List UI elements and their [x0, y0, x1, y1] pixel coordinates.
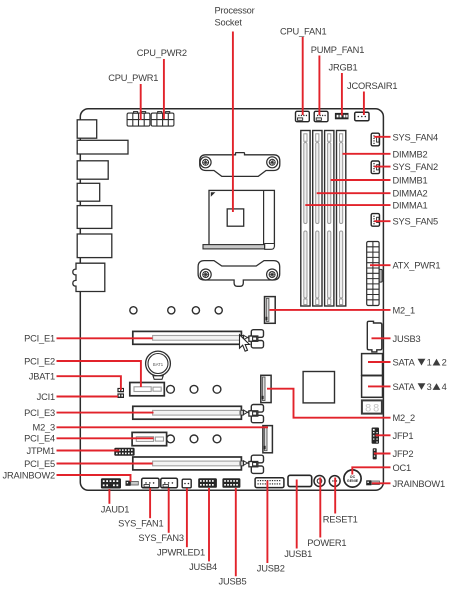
svg-text:DIMMB2: DIMMB2: [393, 149, 428, 159]
wire JUSB2: [266, 481, 268, 564]
rear IO port block 1: [77, 120, 97, 138]
svg-text:PCI_E2: PCI_E2: [24, 356, 55, 366]
svg-text:88: 88: [365, 403, 381, 415]
svg-text:PCI_E3: PCI_E3: [24, 408, 55, 418]
connector SYS_FAN5: [371, 214, 379, 227]
svg-text:DIMMA2: DIMMA2: [393, 189, 428, 199]
svg-text:M2_1: M2_1: [393, 305, 415, 315]
svg-text:JUSB3: JUSB3: [393, 334, 421, 344]
standoff holes row 3: [167, 435, 221, 443]
connector SATA 1/2: [362, 354, 383, 376]
button RESET1: [329, 476, 340, 487]
connector CPU_FAN1: [296, 111, 310, 121]
connector ATX_PWR1 (24-pin): [367, 242, 382, 306]
wire SATA34: [368, 385, 391, 387]
wire DIMMB2: [343, 153, 391, 155]
jumper JBAT1: [117, 388, 124, 392]
connector JRGB1: [335, 113, 348, 119]
wire JUSB1: [296, 480, 298, 549]
svg-text:JPWRLED1: JPWRLED1: [157, 548, 205, 558]
svg-text:ATX_PWR1: ATX_PWR1: [393, 261, 441, 271]
connector JPWRLED1: [182, 479, 191, 488]
M.2 slot M2_1: [265, 297, 276, 324]
wire PCI_E4: [57, 437, 154, 439]
svg-text:CPU_FAN1: CPU_FAN1: [280, 26, 326, 36]
CPU socket bottom bracket: [198, 261, 280, 287]
wire PUMP_FAN1: [318, 56, 320, 116]
leader lines: [57, 32, 391, 577]
svg-text:JBAT1: JBAT1: [29, 372, 55, 382]
svg-text:JAUD1: JAUD1: [101, 504, 129, 514]
svg-text:JRAINBOW2: JRAINBOW2: [3, 470, 55, 480]
svg-text:SYS_FAN4: SYS_FAN4: [393, 132, 438, 142]
DIMM slot DIMMA1: [301, 131, 310, 307]
svg-text:JFP1: JFP1: [393, 431, 414, 441]
jumper JCI1: [117, 393, 124, 398]
wire JCI1: [57, 396, 119, 398]
svg-text:SYS_FAN5: SYS_FAN5: [393, 217, 438, 227]
connector CPU_PWR2 (4x2 grid): [151, 112, 174, 127]
svg-text:JFP2: JFP2: [393, 449, 414, 459]
svg-text:JTPM1: JTPM1: [27, 446, 55, 456]
connector SYS_FAN2: [371, 161, 379, 174]
DIMM slot DIMMB2: [337, 131, 346, 307]
wire JUSB5: [235, 488, 237, 576]
svg-text:JRGB1: JRGB1: [329, 63, 358, 73]
connector JCORSAIR1: [355, 112, 369, 121]
svg-text:RESET1: RESET1: [323, 514, 358, 524]
svg-text:JUSB5: JUSB5: [219, 577, 247, 587]
svg-text:JUSB2: JUSB2: [257, 563, 285, 573]
battery BAT1: [146, 351, 171, 379]
wire SYS_FAN4: [374, 136, 390, 138]
svg-text:JCI1: JCI1: [37, 392, 55, 402]
PCI_E3 slot: [133, 406, 242, 419]
svg-text:M2_3: M2_3: [33, 423, 55, 433]
connector JTPM1: [114, 448, 134, 456]
connector JRAINBOW1: [366, 480, 379, 485]
wire JTPM1: [57, 450, 120, 452]
connector SATA 3/4: [362, 376, 383, 398]
standoff holes row 2: [167, 385, 221, 393]
header JFP1: [372, 428, 379, 444]
wire M2_2: [267, 389, 391, 418]
svg-text:JUSB4: JUSB4: [189, 562, 217, 572]
wire M2_3: [57, 426, 269, 428]
svg-text:Socket: Socket: [215, 18, 243, 28]
CPU socket AM4: [203, 190, 274, 249]
wire JFP1: [376, 434, 391, 436]
wire JFP2: [374, 453, 391, 455]
connector JUSB4: [198, 478, 217, 488]
DIMM slot DIMMB1: [325, 131, 334, 307]
wire ATX_PWR1: [370, 264, 391, 266]
svg-text:JUSB1: JUSB1: [284, 549, 312, 559]
svg-text:SYS_FAN2: SYS_FAN2: [393, 162, 438, 172]
connector JAUD1: [101, 478, 121, 488]
header JFP2: [373, 448, 377, 459]
wire SYS_FAN1: [149, 488, 151, 518]
M.2 slot M2_3: [263, 426, 273, 453]
svg-text:DIMMA1: DIMMA1: [393, 201, 428, 211]
svg-text:CPU_PWR2: CPU_PWR2: [137, 48, 187, 58]
wire CPU_PWR1: [140, 84, 142, 120]
rear IO port block 5: [77, 206, 112, 229]
wire JCORSAIR1: [363, 92, 365, 116]
rear IO port block 2: [77, 140, 128, 154]
svg-text:SATA: SATA: [393, 382, 416, 392]
wire JUSB3: [372, 337, 391, 339]
debug LED display: [362, 400, 382, 415]
wire JRGB1: [341, 73, 343, 116]
wire PCI_E5: [57, 463, 153, 465]
svg-text:3: 3: [427, 382, 432, 392]
connector JUSB3: [367, 321, 382, 352]
svg-text:SYS_FAN3: SYS_FAN3: [138, 533, 183, 543]
svg-text:2: 2: [442, 358, 447, 368]
svg-text:PUMP_FAN1: PUMP_FAN1: [311, 45, 365, 55]
connector JUSB5: [222, 478, 240, 488]
svg-text:JRAINBOW1: JRAINBOW1: [393, 479, 445, 489]
svg-text:DIMMB1: DIMMB1: [393, 176, 428, 186]
rear IO audio block: [73, 263, 105, 291]
svg-text:M2_2: M2_2: [393, 413, 415, 423]
PCI_E2 slot: [130, 383, 165, 396]
wire JAUD1: [108, 489, 110, 504]
wire PCI_E1: [57, 337, 153, 339]
chipset: [303, 372, 334, 403]
svg-text:4: 4: [442, 382, 447, 392]
wire POWER1: [319, 478, 321, 538]
PCI_E1 slot: [133, 331, 242, 344]
connector JUSB1: [288, 475, 312, 486]
wire SYS_FAN2: [374, 166, 390, 168]
svg-text:OC1: OC1: [393, 463, 412, 473]
rear IO port block 6: [77, 234, 112, 258]
svg-text:SATA: SATA: [393, 358, 416, 368]
connector JRAINBOW2: [126, 481, 139, 486]
PCI_E5 slot: [133, 457, 242, 470]
svg-text:JCORSAIR1: JCORSAIR1: [347, 81, 397, 91]
wire DIMMB1: [331, 179, 391, 181]
connector SYS_FAN3: [161, 478, 178, 488]
svg-text:Processor: Processor: [215, 6, 255, 16]
connector PUMP_FAN1: [314, 111, 328, 121]
standoff holes row 1: [130, 307, 223, 314]
wire CPU_PWR2: [163, 59, 165, 119]
wire JPWRLED1: [186, 488, 188, 547]
svg-text:GENIE: GENIE: [347, 479, 359, 483]
rear IO port block 3: [77, 161, 108, 179]
motherboard outline: [80, 109, 383, 491]
wire JBAT1: [57, 376, 121, 390]
svg-text:SYS_FAN1: SYS_FAN1: [118, 519, 163, 529]
wire M2_1: [270, 309, 391, 311]
wire PCI_E2: [57, 361, 141, 387]
svg-text:1: 1: [427, 358, 432, 368]
M.2 slot M2_2: [261, 375, 271, 402]
wire SYS_FAN3: [168, 488, 170, 533]
rear IO port block 4: [77, 183, 100, 201]
connector SYS_FAN1: [142, 478, 159, 488]
PCI_E4 slot: [132, 432, 167, 445]
CPU socket top bracket: [200, 153, 280, 177]
wire DIMMA2: [317, 192, 391, 194]
svg-text:PCI_E4: PCI_E4: [24, 434, 55, 444]
wire JRAINBOW2: [57, 475, 131, 482]
wire RESET1: [334, 478, 336, 514]
wire Processor Socket: [232, 32, 234, 213]
cursor arrow: [240, 335, 250, 352]
DIMM slot DIMMA2: [313, 131, 322, 307]
wire SYS_FAN5: [374, 220, 390, 222]
wire DIMMA1: [305, 204, 390, 206]
wire CPU_FAN1: [302, 37, 304, 115]
svg-text:CPU_PWR1: CPU_PWR1: [108, 73, 158, 83]
connector CPU_PWR1 (4x2 grid): [127, 112, 150, 127]
wire JUSB4: [208, 488, 210, 561]
PCI_E3 latch: [241, 405, 264, 423]
svg-text:PCI_E5: PCI_E5: [24, 459, 55, 469]
PCI_E5 latch: [241, 455, 264, 473]
svg-text:POWER1: POWER1: [307, 538, 346, 548]
wire PCI_E3: [57, 412, 154, 414]
connector SYS_FAN4: [371, 133, 379, 146]
button POWER1: [314, 476, 325, 487]
wire SATA12: [368, 361, 391, 363]
wire OC1: [352, 467, 390, 474]
connector JUSB2: [255, 478, 284, 488]
svg-text:BAT1: BAT1: [153, 362, 164, 367]
wire JRAINBOW1: [372, 482, 391, 484]
button OC1 (OC Genie): [344, 470, 361, 487]
PCI_E1 latch: [241, 330, 264, 348]
svg-text:PCI_E1: PCI_E1: [24, 334, 55, 344]
